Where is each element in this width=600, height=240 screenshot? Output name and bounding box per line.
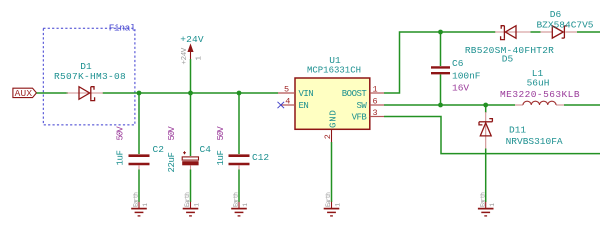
svg-text:Final: Final <box>109 22 136 33</box>
pin 6 SW lead <box>370 104 384 106</box>
capacitor C2 <box>129 156 150 164</box>
diode D5 pin leads <box>495 31 531 33</box>
svg-text:C12: C12 <box>252 152 269 163</box>
svg-text:50V: 50V <box>167 126 177 141</box>
junction D11 branch <box>483 103 488 108</box>
svg-text:22uF: 22uF <box>167 152 177 172</box>
diode D6 pin leads <box>541 31 553 33</box>
pin 4 EN lead <box>281 104 295 106</box>
ground <box>324 192 342 216</box>
svg-text:MCP16331CH: MCP16331CH <box>307 66 361 76</box>
svg-text:4: 4 <box>285 96 290 106</box>
wire U1 GND to ground <box>331 142 333 202</box>
diode D11 pin lead <box>485 112 487 149</box>
ground <box>478 192 496 216</box>
inductor L1 <box>523 101 556 105</box>
ground <box>231 192 249 216</box>
diode D1 pin leads <box>67 92 104 94</box>
no-connect X on EN <box>278 102 285 108</box>
ground <box>183 192 201 216</box>
junction C6 bottom <box>438 103 443 108</box>
svg-text:BOOST: BOOST <box>342 89 368 99</box>
schottky diode D11 NRVBS310FA <box>479 119 492 136</box>
wire SW to D11 <box>485 105 487 113</box>
global label AUX <box>13 88 37 97</box>
junction C6 top <box>438 30 443 35</box>
ground <box>131 192 149 216</box>
svg-text:50V: 50V <box>116 126 126 141</box>
svg-text:+24V: +24V <box>180 34 204 45</box>
svg-text:GND: GND <box>329 109 339 128</box>
junction +24V / C4 branch <box>188 91 193 96</box>
svg-text:U1: U1 <box>329 55 341 66</box>
wire AUX to D1 <box>37 92 69 94</box>
junction C12 branch <box>237 91 242 96</box>
svg-text:50V: 50V <box>216 126 226 141</box>
svg-text:5: 5 <box>284 84 289 94</box>
svg-text:1: 1 <box>196 56 204 61</box>
wire C12 vertical <box>238 93 240 154</box>
svg-text:3: 3 <box>372 108 377 118</box>
power symbol +24V <box>180 34 204 93</box>
wire D1 to VIN net <box>103 92 279 94</box>
wire L1 to right edge <box>564 104 600 106</box>
diode D5 RB520SM-40FHT2R <box>501 26 516 40</box>
Final dashed annotation box <box>43 28 135 125</box>
wire D11 to ground <box>485 149 487 203</box>
pin 1 BOOST lead <box>370 92 384 94</box>
svg-text:EN: EN <box>299 101 309 111</box>
wire between D5 and D6 <box>531 31 541 33</box>
capacitor C6 <box>431 67 450 73</box>
svg-text:1uF: 1uF <box>216 150 226 165</box>
op-amp U1 body <box>295 78 370 129</box>
svg-text:ME3220-563KLB: ME3220-563KLB <box>500 89 580 100</box>
diode D1 R507K-HM3-08 <box>79 87 95 101</box>
wire D6 to right edge <box>577 31 600 33</box>
svg-text:R507K-HM3-08: R507K-HM3-08 <box>54 71 126 82</box>
wire C2 vertical <box>138 93 140 154</box>
zener diode D6 BZX584C7V5 <box>552 26 567 38</box>
svg-text:D5: D5 <box>502 54 514 65</box>
svg-text:16V: 16V <box>452 83 469 94</box>
svg-text:1uF: 1uF <box>116 150 126 165</box>
pin 2 GND lead <box>331 129 333 142</box>
svg-text:C4: C4 <box>200 144 212 155</box>
wire C6 vertical bottom <box>440 75 442 106</box>
wire BOOST up <box>384 32 496 93</box>
inductor L1 pin leads <box>515 104 523 106</box>
svg-text:2: 2 <box>323 134 333 139</box>
wire SW net <box>384 104 515 106</box>
svg-text:AUX: AUX <box>15 88 33 99</box>
svg-text:C6: C6 <box>452 58 464 69</box>
svg-text:1: 1 <box>372 84 377 94</box>
svg-text:56uH: 56uH <box>527 77 550 88</box>
capacitor C4 polarized <box>182 151 198 165</box>
junction C2 branch <box>137 91 142 96</box>
svg-text:C2: C2 <box>153 144 165 155</box>
svg-text:100nF: 100nF <box>452 70 481 81</box>
wire C6 vertical top <box>440 32 442 66</box>
svg-text:6: 6 <box>372 96 377 106</box>
svg-text:D11: D11 <box>509 125 526 136</box>
capacitor C12 <box>229 156 250 164</box>
wire VFB net <box>384 117 600 154</box>
svg-text:VFB: VFB <box>352 113 368 123</box>
wire C4 vertical <box>190 93 192 156</box>
pin 5 VIN lead <box>278 92 295 94</box>
svg-text:VIN: VIN <box>299 89 314 99</box>
svg-text:NRVBS310FA: NRVBS310FA <box>506 136 563 147</box>
pin 3 VFB lead <box>370 116 384 118</box>
svg-text:+24V: +24V <box>181 47 189 64</box>
svg-text:BZX584C7V5: BZX584C7V5 <box>536 19 593 30</box>
svg-text:SW: SW <box>356 101 367 111</box>
